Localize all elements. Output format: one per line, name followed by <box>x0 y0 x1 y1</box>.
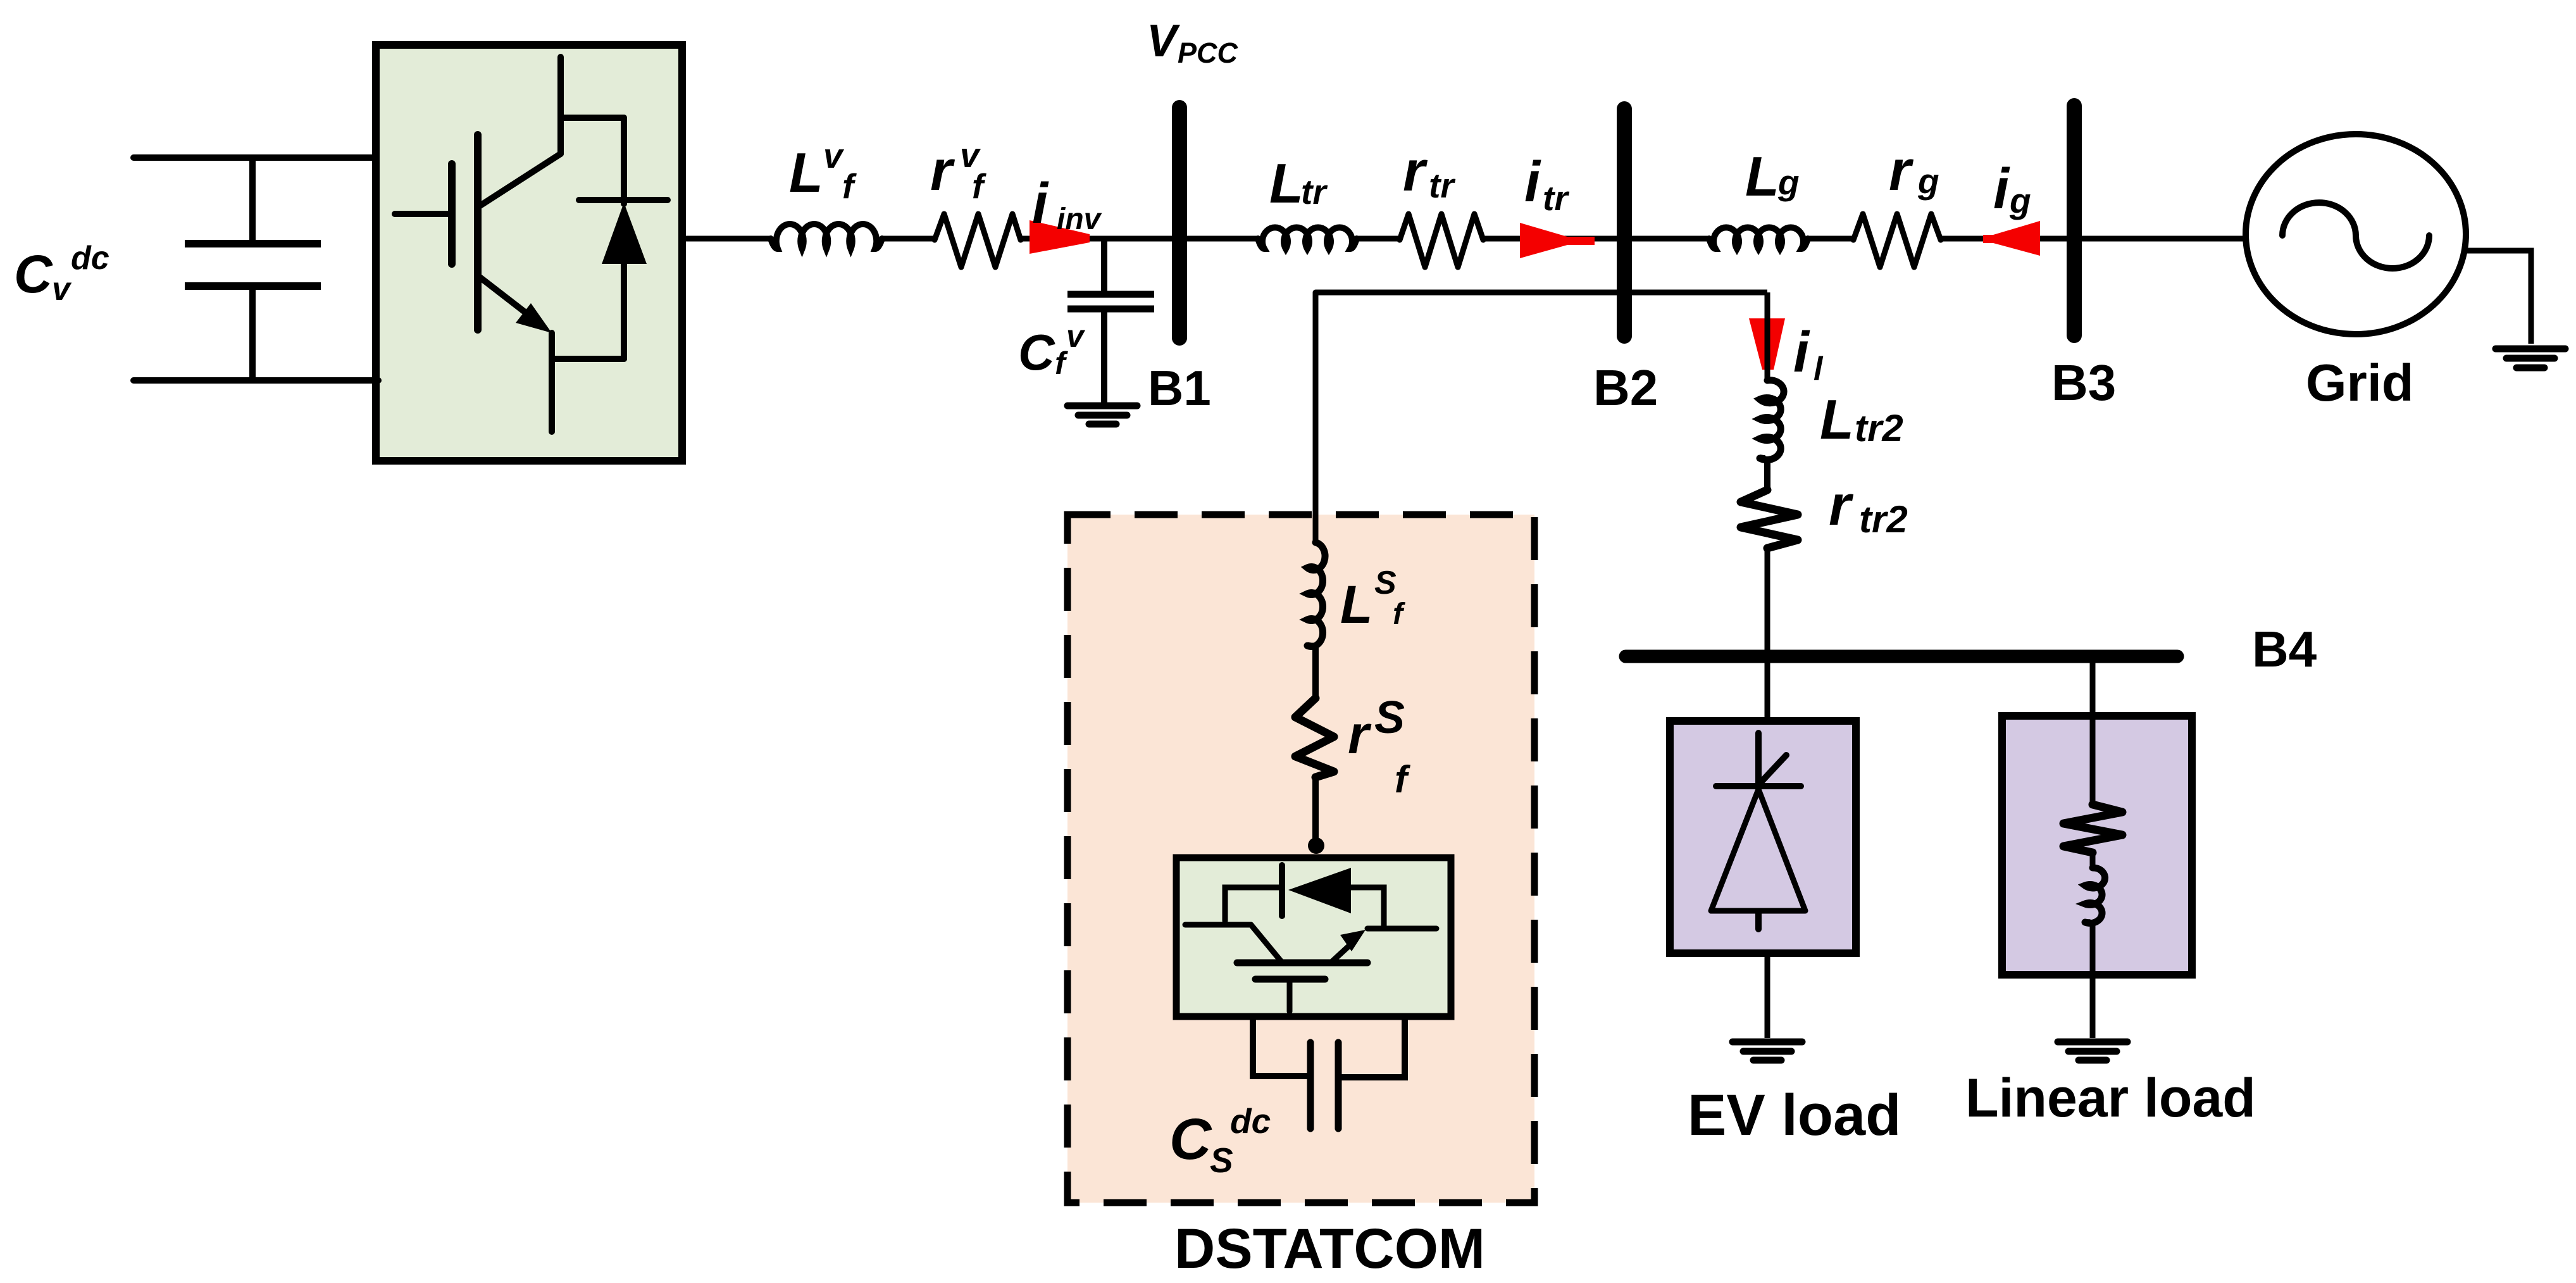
wire EV to ground <box>1765 957 1770 1038</box>
ground Cfv <box>1067 406 1137 424</box>
resistor rtr2 <box>1741 490 1798 548</box>
wire LSf to rSf <box>1307 645 1316 698</box>
node junction dot <box>1308 837 1324 854</box>
load box Linear <box>2002 716 2192 975</box>
resistor rg <box>1853 214 1941 267</box>
inductor Lvf <box>771 224 882 249</box>
wire linear load to ground <box>2085 853 2093 1038</box>
inductor Ltr2 <box>1760 380 1784 460</box>
thyristor EV <box>1711 733 1805 929</box>
arrow i_g <box>1983 221 2040 256</box>
ground linear load <box>2058 1042 2127 1060</box>
inductor LSf <box>1307 542 1325 646</box>
resistor rtr <box>1400 214 1483 267</box>
load box EV <box>1670 721 1856 953</box>
wire Ltr2 to rtr2 <box>1760 457 1767 490</box>
transistor Q1 (IGBT) <box>395 57 561 432</box>
svg-text:B4: B4 <box>2252 621 2317 677</box>
bus B1 <box>1172 108 1187 338</box>
resistor linear load <box>2063 804 2122 853</box>
capacitor Cfv <box>1067 239 1154 404</box>
wire Lvf to rvf <box>882 236 935 242</box>
wire branch down to Ltr2 <box>1765 292 1770 380</box>
inductor Ltr <box>1258 227 1357 249</box>
wire dc top <box>134 154 375 161</box>
ground EV <box>1733 1042 1802 1060</box>
wire B4 to linear resistor <box>2090 663 2096 804</box>
transistor Q2 (rotated IGBT) <box>1185 925 1436 1011</box>
source Grid sine <box>2282 203 2429 268</box>
inverter box U1 <box>376 45 682 461</box>
capacitor Cvdc <box>185 158 321 380</box>
bus B4 <box>1626 650 2177 663</box>
svg-text:B3: B3 <box>2051 354 2116 411</box>
wire rtr to B2 <box>1483 236 1709 242</box>
box DSTATCOM dashed <box>1067 515 1534 1203</box>
inductor linear load <box>2085 868 2105 923</box>
svg-text:DSTATCOM: DSTATCOM <box>1174 1217 1485 1280</box>
wire branch horizontal <box>1316 292 1767 542</box>
arrow i_tr <box>1520 223 1595 258</box>
wire inverter output <box>683 236 772 242</box>
svg-text:EV load: EV load <box>1688 1083 1901 1148</box>
wire rtr2 to B4 <box>1765 548 1770 717</box>
svg-text:Grid: Grid <box>2306 353 2414 412</box>
arrow i_l <box>1749 318 1785 370</box>
svg-text:Linear load: Linear load <box>1965 1068 2256 1129</box>
arrow emitter Q1 <box>516 303 552 333</box>
wire Lg to rg <box>1808 236 1853 242</box>
resistor rSf <box>1295 698 1334 777</box>
wire rg to grid <box>1941 236 2248 242</box>
converter box DSTATCOM <box>1176 858 1451 1017</box>
capacitor CSdc <box>1253 1020 1405 1129</box>
diode D1 triangle <box>602 203 647 264</box>
diode D2 (rotated) <box>1225 865 1384 929</box>
wire rSf to node <box>1312 777 1319 844</box>
arrow i_inv <box>1030 220 1090 254</box>
resistor rvf <box>935 214 1021 267</box>
wire Ltr to rtr <box>1357 236 1402 242</box>
bus B3 <box>2067 106 2082 335</box>
wire grid right <box>2465 251 2531 344</box>
wire rvf to B1 <box>1021 236 1258 242</box>
svg-text:B2: B2 <box>1593 360 1658 416</box>
diode D1 <box>552 118 668 359</box>
diode D2 triangle <box>1288 868 1351 913</box>
inductor Lg <box>1709 227 1808 249</box>
wire dc bottom <box>134 377 378 384</box>
arrow emitter Q2 <box>1340 930 1366 951</box>
ground grid <box>2496 349 2565 368</box>
source Grid circle <box>2246 134 2466 334</box>
svg-text:B1: B1 <box>1148 360 1211 416</box>
bus B2 <box>1617 109 1632 336</box>
